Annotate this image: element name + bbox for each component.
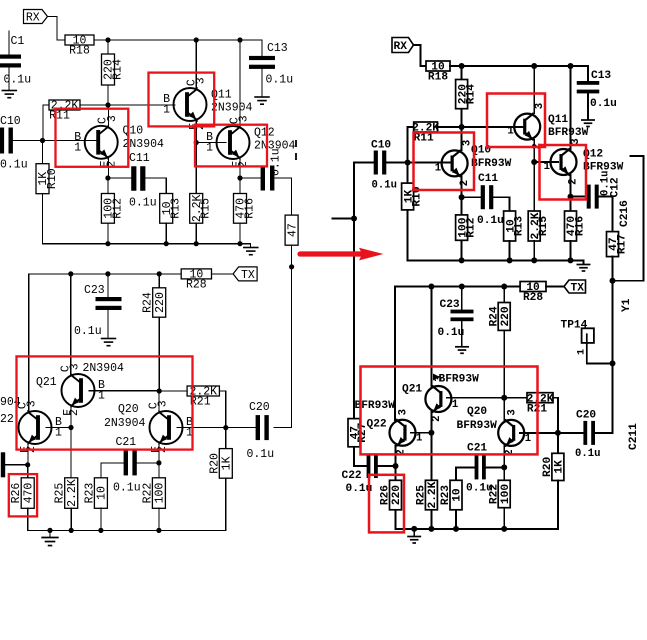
transistor Q22 (right) pin labels [395,409,422,456]
svg-text:0.1u: 0.1u [438,327,465,339]
junction R24 rail [157,271,162,276]
junction Q12 collector rail [237,37,242,42]
capacitor C1 [0,55,21,68]
resistor R14 [102,54,125,85]
resistor R18 (right) [426,61,450,84]
wire node to R25 [70,428,72,478]
wire R11 left down to Q10 base node [42,105,44,141]
svg-text:Y1: Y1 [621,298,633,312]
svg-text:Q10: Q10 [123,125,144,138]
resistor R20 (right) [542,453,565,480]
wire rail to R14 (right) [461,66,463,80]
transistor Q12 [217,125,250,160]
wire R11 to Q11 base [80,104,175,106]
svg-text:0.1u: 0.1u [74,325,102,338]
wire line to C10 (right) [354,162,374,164]
wire Q21 base to node [89,390,159,392]
wire Q12 base [196,142,226,144]
resistor R12 (right) [456,215,478,240]
resistor R25 (right) [416,480,439,510]
transistor Q10 (right) pin labels [435,140,474,187]
wire Q10 collector [107,105,109,127]
wire Q20 emitter (right) [503,446,505,467]
wire R22 to bottom rail [158,508,160,530]
wire R17 down [291,245,293,267]
svg-text:R11: R11 [49,110,70,123]
svg-text:1: 1 [206,142,213,155]
wire node to R16 (right) [570,197,572,211]
resistor R27 (right) [348,419,362,447]
transistor Q20 (right) [498,419,524,447]
svg-text:1: 1 [525,433,531,445]
junction C23 rail (right) [459,284,465,290]
svg-text:RX: RX [26,11,40,24]
capacitor C10 [0,128,13,154]
svg-text:1: 1 [416,433,422,445]
wire node to R12 [107,178,109,194]
junction Q10 base node [40,138,45,143]
resistor R21 [187,386,219,409]
red box around R26 (right) [369,475,404,533]
junction Q22 emitter / C22 / R26 [25,462,30,467]
wire node to R15 [195,143,197,194]
net flag RX (right) [392,38,414,53]
red box around Q20 Q21 Q22 [17,356,193,449]
junction R16 rail (right) [568,257,574,263]
svg-text:C13: C13 [267,42,288,55]
wire R16 to ground rail [239,223,241,244]
wire R24 to Q20 collector node [158,317,160,391]
junction R22 bottom [156,528,161,533]
wire Q11 emitter [195,120,197,143]
transistor Q12 (right) pin labels [544,138,583,185]
svg-text:2N3904: 2N3904 [83,362,125,375]
junction R12 rail (right) [459,257,465,263]
svg-text:1: 1 [74,141,81,154]
resistor R17 [285,215,299,245]
wire C21 to R23 [101,463,124,478]
red box around Q10 (right) [414,133,475,191]
red box around R26 [9,474,37,516]
wire Q12 base (right) [534,161,558,163]
svg-text:R25: R25 [54,483,67,504]
transistor Q20 pin labels [148,400,194,453]
red box around Q11 (right) [487,94,545,148]
svg-text:R14: R14 [465,84,477,104]
net flag RX [24,10,48,25]
svg-text:2N3904: 2N3904 [211,102,253,115]
svg-text:BFR93W: BFR93W [471,158,512,170]
capacitor C20 [256,415,269,440]
wire C22 to node [5,464,28,466]
svg-text:C20: C20 [576,410,596,422]
wire C11 to R13 [146,178,167,194]
wire R13 to rail (right) [509,241,511,260]
svg-text:C13: C13 [591,70,611,82]
wire Q20 collector [158,391,160,412]
svg-text:R17: R17 [616,234,628,254]
red arrow [300,248,384,261]
transistor Q10 [85,125,118,160]
junction input stub (right) [351,216,357,222]
wire Q20 collector (right) [503,398,505,420]
svg-text:R14: R14 [111,59,124,80]
transistor Q10 pin labels [74,115,119,168]
resistor R15 (right) [528,211,550,241]
junction Q21 emitter / Q22 base (right) [428,430,434,436]
svg-text:BFR93W: BFR93W [457,420,498,432]
ground below C1 [2,91,17,98]
wire R14 to node (right) [461,109,463,127]
wire rail to C23 [107,274,109,297]
svg-text:1: 1 [98,390,105,403]
junction Q20 base / R21 / C20 / R20 [223,425,228,430]
red box around Q12 (right) [540,145,587,200]
junction Q20 base node (right) [555,430,561,436]
svg-text:2: 2 [568,179,580,185]
svg-text:220: 220 [500,306,512,326]
wire Q22 base [46,427,71,429]
svg-text:1: 1 [435,162,441,174]
junction R14 top (right) [459,63,465,69]
svg-text:TP14: TP14 [561,320,588,332]
wire R15 to rail (right) [533,241,535,260]
svg-text:0.1u: 0.1u [0,159,28,172]
svg-text:R12: R12 [111,198,124,219]
wire Q12 emitter [239,158,241,178]
wire R14 to base rail [107,85,109,105]
transistor Q20 (right) pin labels [504,409,531,456]
junction R25 bottom [69,528,74,533]
label Q21 value (right) [433,374,440,381]
svg-text:3: 3 [26,400,39,407]
wire C10 to Q10 base (right) [386,162,450,164]
transistor Q21 pin labels [60,363,106,416]
junction R24 rail (right) [501,284,507,290]
wire node to C20 [226,427,256,429]
wire node to R25 (right) [430,433,432,481]
resistor R26 [10,478,35,509]
resistor R13 (right) [504,211,526,241]
svg-text:C23: C23 [84,284,105,297]
wire node to R10 [42,141,44,164]
capacitor C22 [0,452,5,477]
transistor Q21 [62,373,95,408]
junction R13 rail (right) [507,257,513,263]
capacitor C13 [249,56,275,69]
junction Q10 base node (right) [405,160,411,166]
wire C13 to ground [261,68,263,96]
wire R25 to bottom rail [70,508,72,530]
svg-text:0.1u: 0.1u [270,148,283,176]
wire C12 to R17 (right) [599,197,613,232]
svg-text:R23: R23 [83,483,96,504]
wire C23 to ground (right) [461,321,463,346]
wire Q20 base to node (right) [520,432,558,434]
wire R21 to node (right) [553,398,558,433]
wire Q21 collector [70,274,72,375]
wire right edge loop (right) [613,156,644,281]
junction Q12 emitter node (right) [568,194,574,200]
svg-text:C11: C11 [129,152,150,165]
capacitor C11 (right) [481,185,494,209]
svg-text:R16: R16 [243,198,256,219]
resistor R14 (right) [456,80,478,109]
transistor Q10 (right) [442,149,468,177]
wire Q22 emitter [27,444,29,465]
svg-text:Q12: Q12 [254,127,275,140]
wire Q12 collector (right) [570,66,572,149]
wire R15 to ground rail [195,223,197,244]
svg-text:Q21: Q21 [36,376,57,389]
wire C22 to node (right) [377,465,395,467]
wire C1 top [8,31,10,54]
wire node to R26 [27,465,29,478]
resistor R25 [54,478,79,509]
transistor Q21 (right) [425,385,451,413]
ground bottom (right) [407,537,421,543]
junction R15 ground [194,241,199,246]
wire Q20 base to node [177,427,226,429]
svg-text:R11: R11 [414,133,434,145]
wire TX rail (right) [395,286,520,288]
svg-text:R22: R22 [488,484,500,504]
svg-text:2.2K: 2.2K [427,481,439,508]
wire Q11 emitter (right) [533,140,535,162]
svg-text:C10: C10 [371,140,391,152]
junction Q10 emitter node [105,175,110,180]
red box around Q20 Q21 Q22 (right) [361,367,538,455]
junction ground bottom rail [47,528,52,533]
wire Q12 emitter to C12 [240,177,261,179]
svg-text:0.1u: 0.1u [247,448,275,461]
resistor R17 (right) [607,232,629,257]
svg-text:C10: C10 [0,115,21,128]
wire C12 to R17 [274,178,292,215]
wire Q20 emitter [158,444,160,463]
svg-text:R18: R18 [428,72,448,84]
junction Q11 emitter / Q12 base (right) [531,159,537,165]
wire rail to C13 [261,40,263,57]
svg-text:C22: C22 [342,470,362,482]
resistor R10 [36,164,59,194]
red box around Q10 [56,109,129,167]
svg-text:3: 3 [570,138,582,144]
svg-text:220: 220 [154,292,167,313]
svg-text:100: 100 [154,483,167,504]
svg-text:Q20: Q20 [467,406,487,418]
wire RX to R18 [48,17,66,41]
resistor R12 [101,194,124,224]
wire bottom rail [28,529,226,531]
wire node to R10 (right) [407,163,409,184]
capacitor C21 (right) [475,455,486,479]
wire R25 to bottom rail (right) [430,510,432,529]
capacitor C11 [131,166,145,191]
svg-text:Q21: Q21 [402,384,422,396]
ground bottom section [41,538,58,546]
wire rail to ground [250,244,252,247]
resistor R24 [142,288,167,317]
wire R22 to bottom rail (right) [503,508,505,529]
wire Q22 base (right) [411,432,431,434]
resistor R26 (right) [380,480,403,510]
resistor R23 [83,478,108,509]
junction ground bottom (right) [411,526,417,532]
wire R10 to ground rail (right) [408,210,584,261]
wire R28 to TX (right) [546,286,564,288]
wire rail to R24 [158,274,160,288]
svg-text:0.1u: 0.1u [129,197,157,210]
svg-text:R25: R25 [416,485,428,505]
junction R25 bottom (right) [428,526,434,532]
junction Q20 emitter / C21 / R22 (right) [501,464,507,470]
resistor R20 [208,449,233,479]
svg-text:1K: 1K [220,456,233,470]
junction Q21 emitter / Q22 base [68,425,73,430]
wire C11 to R13 (right) [493,197,509,211]
transistor Q11 pin labels [163,77,208,130]
resistor R18 [65,35,94,58]
wire R12 to ground rail [107,223,109,244]
junction Q10 emitter node (right) [459,194,465,200]
junction R14 top [105,37,110,42]
svg-text:220: 220 [391,485,403,505]
wire R23 to bottom rail (right) [455,510,457,529]
svg-text:1: 1 [577,349,588,355]
ground below C13 (right) [581,120,595,126]
junction R17 / feedback line [289,264,294,269]
svg-text:C20: C20 [249,401,270,414]
wire Q10 emitter (right) [461,176,463,197]
capacitor C21 [124,450,137,475]
svg-text:3: 3 [69,363,82,370]
wire R23 to bottom rail [100,508,102,530]
capacitor C23 [96,297,122,310]
wire rail to ground (right) [413,529,415,536]
wire node to R12 (right) [461,197,463,215]
wire R18 rail to R14 [107,40,109,54]
svg-text:1: 1 [55,427,62,440]
wire C10 to Q10 base [12,140,98,142]
wire Q21 emitter (right) [430,412,432,433]
svg-text:R22: R22 [141,483,154,504]
junction R23 bottom [98,528,103,533]
svg-text:R20: R20 [542,457,554,477]
svg-text:10: 10 [96,486,109,500]
svg-text:1: 1 [452,399,458,411]
svg-text:R20: R20 [208,453,221,474]
resistor R16 (right) [565,211,587,241]
junction Q20 collector node (right) [501,395,507,401]
ground top section (right) [577,265,591,271]
capacitor C13 (right) [577,81,600,93]
svg-text:3: 3 [398,409,410,415]
wire Q12 collector [239,40,241,127]
wire rail to C23 (right) [461,287,463,310]
svg-text:C21: C21 [116,436,137,449]
ground below C13 [254,97,270,104]
svg-text:0.1u: 0.1u [4,74,32,87]
transistor Q20 [150,410,183,445]
transistor Q22 (right) [390,419,416,447]
wire R12 to rail (right) [461,240,463,260]
wire input line (right) [353,163,355,419]
svg-text:2N3904: 2N3904 [104,417,146,430]
svg-text:0.1u: 0.1u [477,215,504,227]
resistor R15 [190,194,213,224]
svg-text:R15: R15 [538,216,550,236]
svg-text:1: 1 [507,126,513,138]
wire input stub (right) [333,218,354,220]
transistor Q21 (right) pin labels [431,375,458,422]
junction R22 bottom (right) [501,526,507,532]
resistor R21 (right) [527,393,554,416]
svg-text:470: 470 [22,483,35,504]
junction Q11 collector rail (right) [531,63,537,69]
wire node to R21 (right) [504,397,527,399]
wire rail to ground (right) [583,260,585,263]
wire Q21 base to node (right) [447,397,504,399]
node C12 dashes [295,140,297,160]
transistor Q11 (right) [514,113,540,141]
svg-text:R26: R26 [10,483,23,504]
capacitor C20 (right) [583,421,595,445]
wire Q12 emitter (right) [570,175,572,197]
svg-text:C11: C11 [478,173,498,185]
wire node to R20 [225,428,227,449]
svg-text:2: 2 [459,180,471,186]
wire R24 down (right) [503,330,505,397]
svg-text:TX: TX [571,282,585,294]
svg-text:0.1u: 0.1u [113,482,141,495]
wire C23 to ground [107,311,109,338]
resistor R24 (right) [488,303,511,331]
wire R11 left to base node (right) [408,127,414,163]
svg-text:47: 47 [286,223,299,237]
wire R10 to ground rail [42,194,44,244]
resistor R22 [141,478,166,509]
svg-text:0.1u: 0.1u [266,74,294,87]
junction Q21 collector rail (right) [428,284,434,290]
wire rail to R24 (right) [503,287,505,303]
wire top rail (right) [450,65,588,67]
junction R23 bottom (right) [453,526,459,532]
wire node to C11 (right) [462,196,481,198]
resistor R10 (right) [402,183,424,210]
wire emitter node to C11 [108,177,131,179]
wire node to R21 [159,390,187,392]
capacitor C10 (right) [374,151,387,175]
svg-text:C12: C12 [610,177,622,197]
wire C21 to R23 (right) [456,467,475,480]
svg-text:2: 2 [68,409,81,416]
ground below C23 (right) [455,347,469,353]
junction Q11 collector rail [194,37,199,42]
svg-text:0.1u: 0.1u [590,98,617,110]
svg-text:RX: RX [394,41,408,53]
svg-text:R13: R13 [513,216,525,236]
wire C1 to ground [8,68,10,90]
junction Q21 collector rail [68,271,73,276]
wire C13 to ground (right) [587,92,589,119]
wire rail to C13 (right) [587,66,589,81]
resistor R11 [49,100,80,123]
svg-text:1: 1 [544,161,550,173]
svg-text:C21: C21 [467,443,487,455]
svg-text:R26: R26 [380,485,392,505]
resistor R13 [160,194,183,224]
